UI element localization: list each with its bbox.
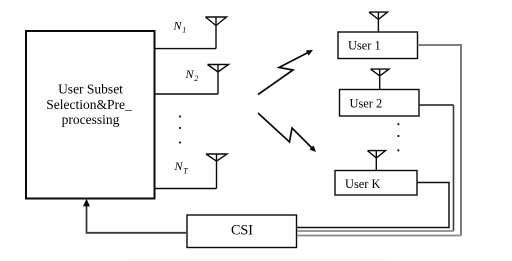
- svg-text:T: T: [183, 167, 188, 176]
- block: User 1: [338, 32, 418, 59]
- antenna A2: [208, 65, 229, 95]
- arrow: downlink channel lightning bolt: [258, 113, 316, 152]
- svg-text:1: 1: [182, 26, 186, 35]
- block: User 2: [340, 90, 420, 117]
- block: CSI: [187, 215, 297, 248]
- svg-text:N: N: [174, 159, 184, 173]
- dots: transmit antenna ellipsis: [179, 115, 181, 143]
- label NT: [174, 159, 189, 175]
- wire: antenna feed line 1: [155, 48, 217, 50]
- svg-text:N: N: [185, 67, 195, 81]
- wire: antenna feed line T: [155, 188, 217, 190]
- wire: CSI feedback to base station: [87, 206, 188, 233]
- arrow: uplink channel lightning bolt: [258, 50, 313, 95]
- svg-text:N: N: [173, 19, 183, 33]
- antenna: User 2: [371, 69, 390, 89]
- antenna: User K: [368, 151, 386, 171]
- antenna: User 1: [369, 12, 388, 32]
- svg-text:User 1: User 1: [348, 38, 381, 52]
- label N2: [185, 67, 199, 83]
- dots: user ellipsis: [397, 123, 399, 151]
- block: User K: [335, 171, 417, 196]
- antenna AT: [206, 154, 227, 189]
- wire: User K feedback to CSI: [297, 183, 449, 228]
- wire: User 1 feedback to CSI: [297, 45, 461, 236]
- block: User Subset Selection&Pre_ processing: [26, 31, 155, 199]
- svg-text:User K: User K: [345, 177, 380, 191]
- svg-text:CSI: CSI: [231, 223, 253, 239]
- label N1: [173, 19, 187, 35]
- svg-text:2: 2: [194, 74, 198, 83]
- svg-text:processing: processing: [62, 112, 120, 127]
- wire: User 2 feedback to CSI: [297, 105, 454, 231]
- wire: antenna feed line 2: [155, 93, 219, 95]
- arrowhead: into base station: [83, 199, 90, 207]
- antenna A1: [206, 17, 227, 49]
- svg-text:User 2: User 2: [350, 97, 383, 111]
- svg-text:Selection&Pre_: Selection&Pre_: [46, 97, 132, 112]
- svg-text:User Subset: User Subset: [58, 82, 123, 97]
- faint cropped caption remnant: [128, 259, 386, 261]
